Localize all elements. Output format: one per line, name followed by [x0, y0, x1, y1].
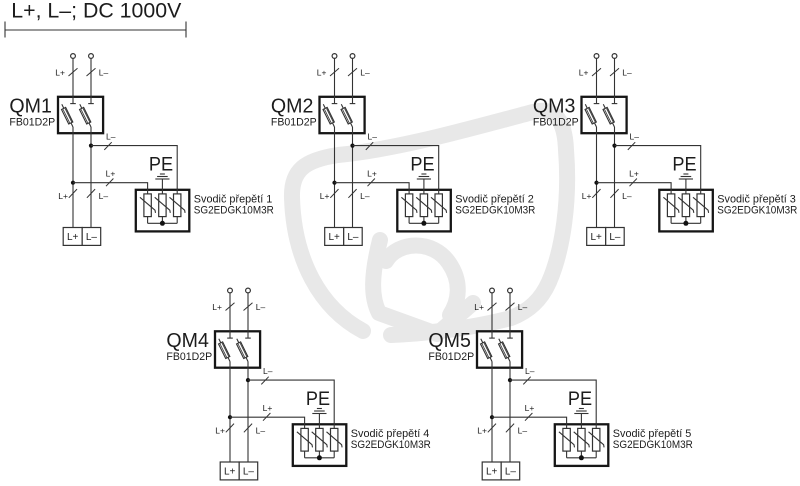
node: L- junction to surge arrester: [246, 378, 250, 382]
disconnector box QM3: [582, 97, 627, 133]
svg-text:L+: L+: [320, 191, 330, 201]
svg-text:L–: L–: [360, 67, 370, 77]
wire L- branch to surge arrester: [248, 380, 334, 428]
lead L+ into arrester: [304, 423, 306, 428]
wire L- branch to surge arrester: [615, 146, 701, 194]
varistor 2 (arrester 2): [416, 194, 432, 223]
svg-text:FB01D2P: FB01D2P: [271, 117, 317, 129]
svg-text:QM3: QM3: [533, 94, 576, 117]
svg-text:L–: L–: [368, 132, 378, 142]
output terminal block L+: [325, 228, 344, 246]
svg-text:L+: L+: [212, 302, 222, 312]
svg-text:PE: PE: [568, 389, 592, 410]
lead L+ into arrester: [670, 189, 672, 194]
fuse-switch pole 2 of QM3: [603, 96, 617, 128]
svg-text:L+: L+: [58, 191, 68, 201]
varistor 3 (arrester 5): [589, 428, 605, 457]
lead PE into arrester: [685, 189, 687, 194]
svg-text:L–: L–: [263, 366, 273, 376]
svg-text:L+: L+: [55, 67, 65, 77]
svg-text:L–: L–: [518, 302, 528, 312]
lead L+ into arrester: [566, 423, 568, 428]
wire L- from input terminal to QM4: [247, 293, 249, 338]
wire L- below QM1 to output terminal: [90, 127, 92, 228]
varistor 3 (arrester 3): [693, 194, 709, 223]
watermark logo (light gray): [292, 111, 567, 335]
conductor mark L+ (main): [488, 424, 496, 433]
wire L+ from input terminal to QM2: [334, 59, 336, 104]
lead PE into arrester: [580, 423, 582, 428]
lead L+ into arrester: [147, 189, 149, 194]
svg-text:Svodič přepětí 2: Svodič přepětí 2: [455, 193, 534, 205]
svg-text:L+: L+: [317, 67, 327, 77]
svg-text:L+: L+: [106, 168, 116, 178]
svg-text:L+: L+: [486, 467, 498, 478]
fuse-switch pole 1 of QM3: [585, 96, 599, 128]
fuse-switch pole 1 of QM5: [481, 330, 495, 362]
svg-text:L–: L–: [622, 67, 632, 77]
wire PE to surge arrester: [423, 179, 425, 194]
wire PE to surge arrester: [318, 414, 320, 429]
wire PE to surge arrester: [580, 414, 582, 429]
node: L+ junction to surge arrester: [332, 181, 336, 185]
svg-text:L+: L+: [477, 426, 487, 436]
conductor mark L+ (branch): [525, 413, 532, 421]
svg-text:L+: L+: [215, 426, 225, 436]
wire common bus inside arrester: [567, 457, 597, 459]
wire L- below QM5 to output terminal: [509, 362, 511, 463]
conductor mark L- (branch): [366, 142, 373, 150]
lead L- into arrester: [333, 423, 335, 428]
wire L+ below QM2 to output terminal: [334, 127, 336, 228]
svg-text:L–: L–: [622, 191, 632, 201]
conductor mark L- (branch): [104, 142, 111, 150]
conductor mark L+ (top): [592, 68, 601, 76]
conductor mark L- (top): [348, 68, 357, 76]
lead L- into arrester: [595, 423, 597, 428]
lead PE into arrester: [161, 189, 163, 194]
terminal circle L+ input (QM1): [71, 54, 76, 59]
svg-text:FB01D2P: FB01D2P: [9, 117, 55, 129]
output terminal block L-: [501, 462, 520, 480]
varistor 1 (arrester 1): [140, 194, 156, 223]
wire L+ below QM3 to output terminal: [596, 127, 598, 228]
svg-text:L–: L–: [518, 426, 528, 436]
varistor 2 (arrester 1): [155, 194, 171, 223]
conductor mark L- (top): [506, 303, 515, 311]
surge arrester box (Svodič přepětí 3): [659, 190, 713, 232]
conductor mark L+ (top): [69, 68, 78, 76]
svg-text:SG2EDGK10M3R: SG2EDGK10M3R: [194, 205, 274, 217]
svg-text:L–: L–: [106, 132, 116, 142]
wire L+ from input terminal to QM4: [229, 293, 231, 338]
wire L- from input terminal to QM1: [90, 59, 92, 104]
lead PE into arrester: [318, 423, 320, 428]
circuit block QM3: [533, 54, 798, 246]
wire L+ below QM5 to output terminal: [491, 362, 493, 463]
svg-text:L–: L–: [630, 132, 640, 142]
terminal circle L+ input (QM3): [594, 54, 599, 59]
svg-text:L+: L+: [474, 302, 484, 312]
svg-text:PE: PE: [306, 389, 330, 410]
svg-text:SG2EDGK10M3R: SG2EDGK10M3R: [351, 439, 431, 451]
conductor mark L+ (top): [330, 68, 339, 76]
conductor mark L+ (top): [226, 303, 235, 311]
svg-text:L+: L+: [367, 168, 377, 178]
ground (PE earth symbol): [312, 409, 326, 414]
conductor mark L- (top): [87, 68, 96, 76]
node: arrester common point: [421, 221, 426, 226]
ground (PE earth symbol): [417, 174, 431, 179]
output terminal block L+: [587, 228, 606, 246]
conductor mark L- (branch): [261, 377, 268, 385]
conductor mark L+ (branch): [106, 179, 113, 187]
lead PE into arrester: [423, 189, 425, 194]
conductor mark L- (main): [87, 189, 95, 198]
ground (PE earth symbol): [679, 174, 693, 179]
varistor 1 (arrester 3): [663, 194, 679, 223]
conductor mark L- (main): [506, 424, 514, 433]
svg-text:Svodič přepětí 1: Svodič přepětí 1: [194, 193, 272, 205]
node: L- junction to surge arrester: [612, 144, 616, 148]
surge arrester box (Svodič přepětí 4): [293, 424, 347, 466]
svg-text:L–: L–: [609, 232, 621, 243]
conductor mark L- (branch): [628, 142, 635, 150]
node: arrester common point: [579, 455, 584, 460]
varistor 1 (arrester 4): [297, 428, 313, 457]
wire L+ branch to surge arrester: [492, 417, 567, 428]
svg-text:SG2EDGK10M3R: SG2EDGK10M3R: [613, 439, 693, 451]
svg-text:L–: L–: [99, 191, 109, 201]
wire L+ below QM4 to output terminal: [229, 362, 231, 463]
svg-text:L+: L+: [67, 232, 79, 243]
svg-text:PE: PE: [410, 154, 434, 175]
disconnector box QM2: [320, 97, 365, 133]
svg-text:Svodič přepětí 4: Svodič přepětí 4: [351, 428, 430, 440]
varistor 2 (arrester 5): [574, 428, 590, 457]
lead L+ into arrester: [408, 189, 410, 194]
wire L- branch to surge arrester: [91, 146, 177, 194]
varistor 3 (arrester 1): [170, 194, 186, 223]
node: L+ junction to surge arrester: [594, 181, 598, 185]
svg-text:L–: L–: [256, 302, 266, 312]
svg-text:SG2EDGK10M3R: SG2EDGK10M3R: [455, 205, 535, 217]
lead L- into arrester: [176, 189, 178, 194]
wire L- from input terminal to QM3: [614, 59, 616, 104]
lead L- into arrester: [700, 189, 702, 194]
output terminal block L+: [63, 228, 82, 246]
svg-text:Svodič přepětí 3: Svodič přepětí 3: [717, 193, 796, 205]
wire L+ from input terminal to QM3: [596, 59, 598, 104]
node: arrester common point: [683, 221, 688, 226]
wire L- below QM3 to output terminal: [614, 127, 616, 228]
svg-text:L–: L–: [86, 232, 98, 243]
svg-text:Svodič přepětí 5: Svodič přepětí 5: [613, 428, 692, 440]
conductor mark L+ (branch): [368, 179, 375, 187]
svg-text:PE: PE: [672, 154, 696, 175]
terminal circle L- input (QM3): [612, 54, 617, 59]
circuit block QM2: [271, 54, 536, 246]
disconnector box QM5: [477, 331, 522, 367]
ground (PE earth symbol): [155, 174, 169, 179]
fuse-switch pole 2 of QM5: [499, 330, 513, 362]
wire L+ from input terminal to QM1: [72, 59, 74, 104]
svg-text:L–: L–: [256, 426, 266, 436]
wire L- branch to surge arrester: [353, 146, 439, 194]
wire L- branch to surge arrester: [510, 380, 596, 428]
wire L- from input terminal to QM5: [509, 293, 511, 338]
varistor 1 (arrester 5): [559, 428, 575, 457]
wire L- below QM4 to output terminal: [247, 362, 249, 463]
varistor 1 (arrester 2): [401, 194, 417, 223]
output terminal block L+: [220, 462, 239, 480]
node: L- junction to surge arrester: [89, 144, 93, 148]
varistor 3 (arrester 4): [327, 428, 343, 457]
node: arrester common point: [317, 455, 322, 460]
varistor 2 (arrester 4): [312, 428, 328, 457]
fuse-switch pole 2 of QM1: [80, 96, 94, 128]
wire L- from input terminal to QM2: [352, 59, 354, 104]
terminal circle L- input (QM2): [350, 54, 355, 59]
node: L+ junction to surge arrester: [71, 181, 75, 185]
fuse-switch pole 2 of QM2: [341, 96, 355, 128]
svg-text:L+: L+: [582, 191, 592, 201]
svg-text:L–: L–: [99, 67, 109, 77]
surge arrester box (Svodič přepětí 5): [555, 424, 609, 466]
wire L+ from input terminal to QM5: [491, 293, 493, 338]
conductor mark L+ (top): [488, 303, 497, 311]
wire L+ branch to surge arrester: [73, 183, 148, 194]
fuse-switch pole 2 of QM4: [237, 330, 251, 362]
header dimension bracket: [5, 22, 186, 38]
svg-text:L–: L–: [505, 467, 517, 478]
terminal circle L- input (QM5): [508, 288, 513, 293]
conductor mark L+ (main): [330, 189, 338, 198]
conductor mark L- (branch): [523, 377, 530, 385]
wire common bus inside arrester: [409, 222, 439, 224]
conductor mark L- (top): [244, 303, 253, 311]
svg-text:QM5: QM5: [428, 329, 471, 352]
svg-text:L+: L+: [328, 232, 340, 243]
svg-text:L+: L+: [590, 232, 602, 243]
disconnector box QM4: [215, 331, 260, 367]
disconnector box QM1: [58, 97, 103, 133]
wire common bus inside arrester: [671, 222, 701, 224]
varistor 2 (arrester 3): [678, 194, 694, 223]
output terminal block L+: [482, 462, 501, 480]
svg-text:FB01D2P: FB01D2P: [533, 117, 579, 129]
surge arrester box (Svodič přepětí 2): [397, 190, 451, 232]
wire common bus inside arrester: [148, 222, 178, 224]
svg-text:L+: L+: [629, 168, 639, 178]
wire L+ branch to surge arrester: [597, 183, 672, 194]
node: L+ junction to surge arrester: [228, 415, 232, 419]
wire L+ branch to surge arrester: [335, 183, 410, 194]
fuse-switch pole 1 of QM2: [323, 96, 337, 128]
svg-text:QM1: QM1: [9, 94, 52, 117]
svg-text:L–: L–: [525, 366, 535, 376]
node: L- junction to surge arrester: [350, 144, 354, 148]
output terminal block L-: [344, 228, 363, 246]
varistor 3 (arrester 2): [431, 194, 447, 223]
conductor mark L+ (main): [226, 424, 234, 433]
conductor mark L- (main): [244, 424, 252, 433]
conductor mark L+ (main): [69, 189, 77, 198]
svg-text:SG2EDGK10M3R: SG2EDGK10M3R: [717, 205, 797, 217]
svg-text:FB01D2P: FB01D2P: [166, 351, 212, 363]
terminal circle L- input (QM4): [246, 288, 251, 293]
svg-text:QM2: QM2: [271, 94, 314, 117]
wire PE to surge arrester: [685, 179, 687, 194]
conductor mark L- (main): [348, 189, 356, 198]
svg-text:L+: L+: [263, 403, 273, 413]
wire L- below QM2 to output terminal: [352, 127, 354, 228]
conductor mark L- (top): [610, 68, 619, 76]
wire L+ branch to surge arrester: [230, 417, 305, 428]
surge arrester box (Svodič přepětí 1): [136, 190, 190, 232]
circuit block QM5: [428, 288, 693, 480]
svg-text:QM4: QM4: [166, 329, 209, 352]
conductor mark L+ (branch): [630, 179, 637, 187]
fuse-switch pole 1 of QM1: [62, 96, 76, 128]
svg-text:L+: L+: [525, 403, 535, 413]
wire PE to surge arrester: [161, 179, 163, 194]
lead L- into arrester: [438, 189, 440, 194]
output terminal block L-: [82, 228, 101, 246]
terminal circle L+ input (QM4): [228, 288, 233, 293]
wire L+ below QM1 to output terminal: [72, 127, 74, 228]
svg-text:L+, L–; DC 1000V: L+, L–; DC 1000V: [11, 0, 182, 23]
conductor mark L- (main): [610, 189, 618, 198]
terminal circle L+ input (QM2): [332, 54, 337, 59]
svg-text:L–: L–: [243, 467, 255, 478]
terminal circle L+ input (QM5): [490, 288, 495, 293]
svg-text:L+: L+: [579, 67, 589, 77]
circuit block QM4: [166, 288, 431, 480]
ground (PE earth symbol): [574, 409, 588, 414]
conductor mark L+ (branch): [263, 413, 270, 421]
output terminal block L-: [239, 462, 258, 480]
circuit block QM1: [9, 54, 274, 246]
wire common bus inside arrester: [305, 457, 335, 459]
fuse-switch pole 1 of QM4: [219, 330, 233, 362]
terminal circle L- input (QM1): [89, 54, 94, 59]
svg-text:PE: PE: [149, 154, 173, 175]
output terminal block L-: [606, 228, 625, 246]
svg-text:L–: L–: [347, 232, 359, 243]
node: L+ junction to surge arrester: [490, 415, 494, 419]
node: L- junction to surge arrester: [508, 378, 512, 382]
node: arrester common point: [160, 221, 165, 226]
conductor mark L+ (main): [592, 189, 600, 198]
svg-text:FB01D2P: FB01D2P: [428, 351, 474, 363]
svg-text:L–: L–: [360, 191, 370, 201]
svg-text:L+: L+: [224, 467, 236, 478]
